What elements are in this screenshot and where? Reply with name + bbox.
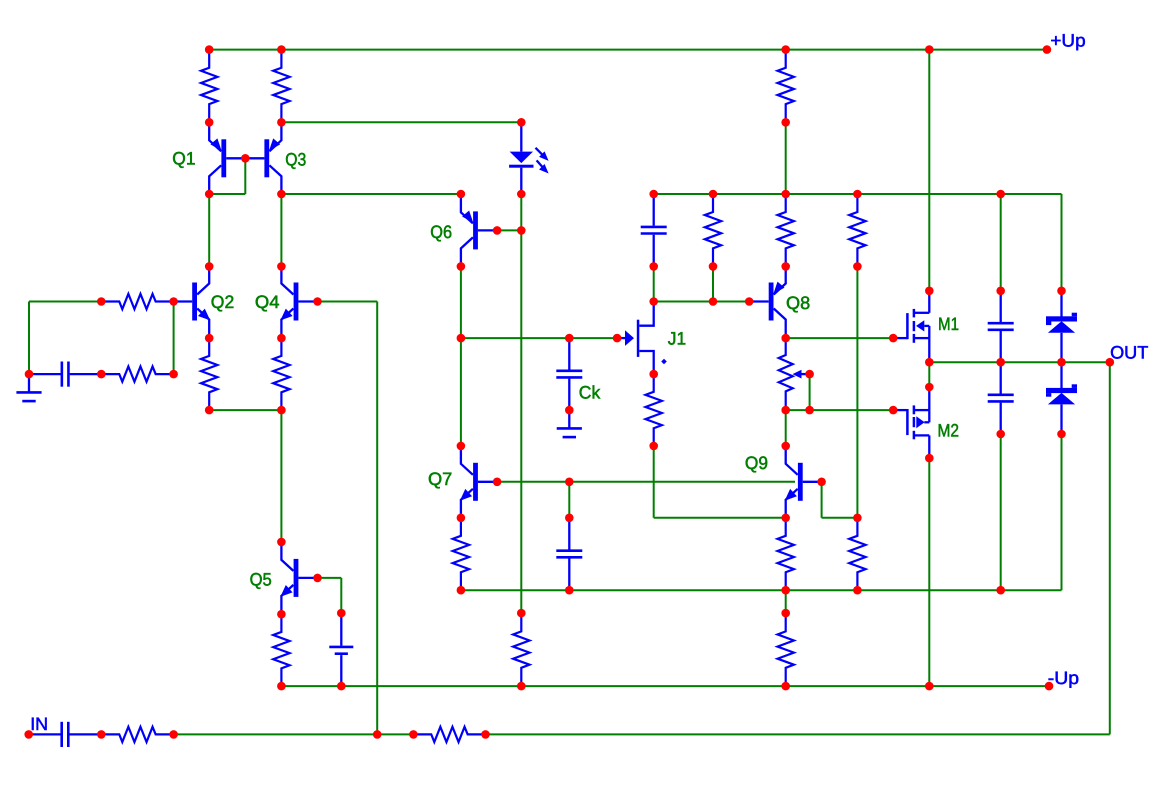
wire Q1 collector jog	[209, 193, 245, 195]
resistor R14 (Q9 base bias)	[849, 518, 865, 590]
node +Up@786	[781, 45, 790, 54]
node OUT@929	[925, 358, 934, 367]
capacitor Ck	[556, 338, 582, 410]
transistor Q5	[280, 542, 317, 614]
M2 source lead	[928, 387, 930, 410]
wire M2 source to -Up	[928, 458, 930, 686]
svg-text:Q5: Q5	[250, 570, 272, 590]
svg-text:Q2: Q2	[211, 292, 234, 312]
wire feedback up	[173, 302, 175, 375]
node R2 bottom	[277, 118, 286, 127]
node LED cathode	[517, 190, 526, 199]
ground GND1	[16, 374, 41, 401]
label Q3	[285, 150, 306, 170]
wire feedback column	[376, 302, 378, 735]
node Q5 collector	[277, 538, 286, 547]
net label OUT	[1110, 343, 1148, 363]
node C4 top	[337, 609, 346, 618]
node R12 bottom	[649, 442, 658, 451]
node M2 source	[925, 383, 934, 392]
node Q6 collector	[457, 262, 466, 271]
wire cap col 1000 up	[1000, 194, 1002, 291]
resistor R9 (Q8 emitter)	[778, 194, 794, 266]
node R17 top	[277, 610, 286, 619]
node Q9 emitter	[781, 514, 790, 523]
node bias@1000	[996, 190, 1005, 199]
svg-text:J1: J1	[668, 329, 686, 349]
resistor R19 (feedback lower)	[413, 727, 485, 742]
node C5 top	[996, 287, 1005, 296]
label Q5	[250, 570, 272, 590]
wire tail down to Q5	[280, 410, 282, 542]
label Q8	[786, 293, 810, 313]
wire M1-M2 link	[928, 362, 930, 387]
node R14 bottom	[853, 586, 862, 595]
wire IN line right	[486, 733, 1110, 735]
net label +Up	[1050, 30, 1085, 50]
label Ck	[579, 383, 601, 403]
resistor R4 (input series)	[101, 294, 173, 309]
resistor R6 (Q2 emitter)	[201, 338, 217, 410]
node OUT@1000	[996, 358, 1005, 367]
node J1 gate	[613, 334, 622, 343]
wire J1 res to Q9 emitter	[654, 517, 786, 519]
node C3 junction	[565, 478, 574, 487]
wire OUT line	[929, 361, 1110, 363]
node bias@713	[709, 190, 718, 199]
node -Up@786	[781, 682, 790, 691]
wire Q1 to Q2 collector	[208, 194, 210, 266]
node R3 bottom	[781, 118, 790, 127]
wire Q3 to Q4 collector	[280, 194, 282, 266]
node bias@786	[781, 190, 790, 199]
potentiometer P1 (bias)	[779, 338, 810, 410]
resistor R8 (bias)	[705, 194, 721, 266]
node OUT node	[1106, 358, 1115, 367]
wire Q8 base line	[654, 301, 750, 303]
resistor R3 (VAS load)	[778, 50, 794, 123]
capacitor C5 (OUT upper)	[988, 291, 1014, 362]
node Q7 collector	[457, 442, 466, 451]
resistor R12 (J1 source)	[646, 374, 662, 446]
node -Up end	[1045, 682, 1054, 691]
node +Up@281	[277, 45, 286, 54]
node Q4 base	[313, 297, 322, 306]
transistor Q6	[461, 194, 497, 266]
node Q8 base	[745, 297, 754, 306]
node C3 bottom	[565, 586, 574, 595]
M1 drain lead	[928, 291, 930, 313]
wire OUT feedback down	[1109, 362, 1111, 734]
wire R-top column	[785, 122, 787, 194]
label Q7	[428, 469, 452, 489]
MOSFET M1	[893, 309, 929, 343]
node Q9 collector	[781, 442, 790, 451]
node R16 top	[781, 609, 790, 618]
node Ck bottom	[565, 406, 574, 415]
node -Up@929	[925, 682, 934, 691]
node R7 bottom	[277, 406, 286, 415]
wire bias col 857 down	[856, 266, 858, 517]
label M1	[938, 314, 959, 334]
node Q4 emitter	[277, 334, 286, 343]
node LED anode	[517, 118, 526, 127]
node R10 bottom	[853, 262, 862, 271]
svg-text:Q6: Q6	[430, 222, 452, 242]
node R14 top	[853, 514, 862, 523]
node J1 source	[649, 370, 658, 379]
resistor R17 (Q5 emitter)	[273, 614, 289, 686]
wire C569 link	[568, 482, 570, 518]
node R5-C1	[97, 370, 106, 379]
capacitor C4 (Q5 base)	[329, 613, 353, 686]
capacitor C6 (OUT lower)	[988, 362, 1014, 434]
capacitor C3 (Q7 base)	[556, 518, 582, 590]
node R6 bottom	[205, 406, 214, 415]
node M2 gate	[889, 406, 898, 415]
net label IN	[30, 714, 48, 734]
node R18 out	[169, 730, 178, 739]
wire Q1-Q3 base down	[244, 158, 246, 194]
node Q9 base	[817, 478, 826, 487]
node fb node	[169, 370, 178, 379]
resistor R1 (Q1 load)	[201, 50, 217, 123]
wire +Up to M1 drain	[928, 50, 930, 291]
svg-text:Q4: Q4	[255, 292, 280, 312]
resistor R15 (LED chain)	[513, 613, 529, 686]
node Q8 base net@713	[709, 297, 718, 306]
svg-text:Q7: Q7	[428, 469, 452, 489]
wire lower rail	[461, 589, 1062, 591]
wire Q5 base right	[318, 577, 342, 579]
wire Q9 base down	[821, 482, 823, 518]
wire Q6 base to LED cathode	[497, 229, 521, 231]
label Q2	[211, 292, 234, 312]
node +Up@209	[205, 45, 214, 54]
zener diode D3	[1046, 362, 1077, 434]
node R19 out	[481, 730, 490, 739]
node Q8 emitter	[781, 262, 790, 271]
resistor R18 (input series)	[101, 727, 173, 742]
node R11 bottom	[457, 586, 466, 595]
wire upper bias rail	[654, 193, 1062, 195]
wire IN line left	[174, 733, 414, 735]
capacitor C7 (input coupling)	[29, 722, 102, 747]
svg-text:M1: M1	[938, 314, 959, 334]
node C2 bottom	[649, 262, 658, 271]
node Q6 base	[493, 226, 502, 235]
svg-text:OUT: OUT	[1110, 343, 1148, 363]
wire zener col down	[1061, 434, 1063, 590]
wire pot wiper down	[809, 374, 811, 410]
svg-text:Q8: Q8	[786, 293, 810, 313]
wire Q6 collector column	[460, 266, 462, 446]
JFET J1	[617, 302, 667, 375]
node D3 anode	[1057, 430, 1066, 439]
svg-text:Q3: Q3	[285, 150, 306, 170]
node C7-R18	[97, 730, 106, 739]
node C6 net	[996, 586, 1005, 595]
node M1 drain	[925, 287, 934, 296]
wire cap col 654 down	[653, 266, 655, 301]
M2 drain lead	[928, 435, 930, 458]
node Q2 collector	[205, 262, 214, 271]
wire Q3 collector to Q6 emitter	[281, 193, 461, 195]
MOSFET M2	[893, 405, 929, 439]
wire cap col down	[1000, 434, 1002, 590]
transistor Q9	[785, 446, 822, 518]
node C6 bottom	[996, 430, 1005, 439]
node pot bottom	[781, 406, 790, 415]
wire Q9 collector up	[785, 410, 787, 446]
M1 source lead	[928, 338, 930, 362]
wire input top	[29, 301, 101, 303]
transistor Q2	[173, 266, 210, 338]
transistor Q1	[209, 122, 245, 194]
transistor Q8	[750, 266, 786, 338]
node -Up@521	[517, 682, 526, 691]
wire tail join	[209, 409, 281, 411]
label M2	[938, 421, 960, 441]
wire Q4 base right	[318, 301, 378, 303]
node D2 cathode	[1057, 287, 1066, 296]
label Q1	[172, 148, 195, 168]
wire Q7 base line	[497, 481, 795, 483]
svg-text:+Up: +Up	[1050, 30, 1085, 50]
node R8 bottom	[709, 262, 718, 271]
node R4 in	[97, 297, 106, 306]
wire res col 713 down	[712, 266, 714, 301]
label Q9	[745, 453, 768, 473]
node -Up@281	[277, 682, 286, 691]
svg-text:Q9: Q9	[745, 453, 768, 473]
svg-text:Ck: Ck	[579, 383, 601, 403]
LED D1	[509, 122, 548, 194]
node Q6 base junction	[517, 226, 526, 235]
resistor R2 (Q3 load)	[273, 50, 289, 123]
node Q2 emitter	[205, 334, 214, 343]
transistor Q7	[460, 446, 497, 518]
svg-text:IN: IN	[30, 714, 48, 734]
node fb tap	[373, 730, 382, 739]
net label -Up	[1048, 668, 1079, 688]
node Q1 collector	[205, 190, 214, 199]
resistor R7 (Q4 emitter)	[273, 338, 289, 410]
wire J1 source res down	[653, 446, 655, 518]
node bias@654	[649, 190, 658, 199]
node Q1-Q3 bases	[241, 154, 250, 163]
node R13 bottom	[781, 586, 790, 595]
node -Up@341	[337, 682, 346, 691]
node pot wiper	[805, 370, 814, 379]
node Q6 emitter	[457, 190, 466, 199]
label Q6	[430, 222, 452, 242]
wire Q3 collector to LED	[281, 121, 521, 123]
resistor R5 (feedback)	[101, 367, 173, 382]
wire LED cathode column	[520, 194, 522, 613]
wire Q5 base cap link	[340, 578, 342, 613]
node Q8 base net@654	[649, 297, 658, 306]
capacitor C2 (Q8 base)	[641, 194, 667, 266]
wire VAS gate line	[461, 337, 617, 339]
resistor R13 (Q9 emitter)	[778, 518, 794, 590]
node M1 gate	[889, 334, 898, 343]
node Q4 collector	[277, 262, 286, 271]
svg-text:M2: M2	[938, 421, 960, 441]
node +Up end	[1043, 45, 1052, 54]
node Q7 base	[493, 478, 502, 487]
wire -Up rail	[281, 685, 1049, 687]
node bias@857	[853, 190, 862, 199]
node R19 in	[409, 730, 418, 739]
node OUT@1061	[1057, 358, 1066, 367]
wire Q9 base to bias res	[822, 517, 858, 519]
capacitor C1 (input shunt)	[29, 362, 101, 387]
node gnd-cap	[25, 370, 34, 379]
node IN node	[24, 730, 33, 739]
node Q2 base	[169, 297, 178, 306]
resistor R11 (Q7 emitter)	[453, 518, 469, 590]
ground GND2 (Ck)	[557, 410, 582, 437]
resistor R10 (bias)	[849, 194, 865, 266]
wire Q8 collector to M1 gate	[786, 337, 894, 339]
label Q4	[255, 292, 280, 312]
node Q8 collector	[781, 334, 790, 343]
node Ck top	[565, 334, 574, 343]
label J1	[668, 329, 686, 349]
transistor Q3	[245, 122, 281, 194]
wire pot bottom to M2 gate	[786, 409, 894, 411]
node Q7 emitter	[457, 514, 466, 523]
wire input left down	[28, 302, 30, 375]
wire col786 link	[785, 590, 787, 613]
resistor R16 (col786 lower)	[778, 613, 794, 686]
transistor Q4	[280, 266, 317, 338]
svg-text:Q1: Q1	[172, 148, 195, 168]
node wiper join	[805, 406, 814, 415]
node R1 bottom	[205, 118, 214, 127]
node M2 drain	[925, 454, 934, 463]
node R15 top	[517, 609, 526, 618]
wire +Up rail	[209, 49, 1047, 51]
wire zener col 1061	[1061, 194, 1063, 291]
node Q3 collector	[277, 190, 286, 199]
node Q5 base	[313, 574, 322, 583]
node VAS node	[457, 334, 466, 343]
node +Up@929	[925, 45, 934, 54]
svg-text:-Up: -Up	[1048, 668, 1079, 688]
zener diode D2	[1046, 291, 1077, 362]
node C3 top	[565, 514, 574, 523]
